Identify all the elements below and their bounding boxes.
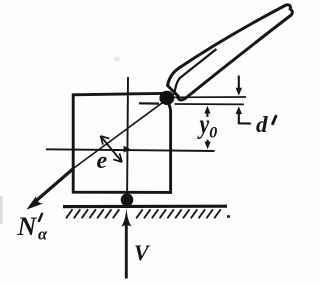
pivot dot top [159, 91, 174, 105]
support dot bottom [121, 193, 134, 206]
force N' arrow shaft (thick) [34, 168, 75, 203]
svg-text:d: d [256, 112, 268, 137]
lower reference line [139, 102, 159, 104]
blade member outline [168, 5, 293, 100]
scan smudge left edge [0, 196, 3, 224]
svg-text:V: V [134, 240, 151, 265]
blade inner streak [175, 49, 217, 95]
vertical centroid axis [127, 77, 128, 208]
svg-text:N: N [17, 212, 38, 241]
horizontal centroid axis [46, 149, 215, 151]
centroid arrowhead [124, 146, 131, 153]
force V arrow shaft [125, 222, 128, 279]
period after hatching [227, 215, 230, 218]
svg-text:α: α [38, 225, 48, 244]
svg-text:0: 0 [209, 125, 217, 142]
d' bottom arrow with leader [239, 111, 251, 124]
e dimension arrow [101, 136, 123, 162]
svg-text:e: e [97, 148, 108, 174]
ground hatching [66, 209, 221, 218]
force V arrowhead [121, 208, 131, 227]
ground line [63, 205, 227, 209]
y0 top arrow [206, 109, 208, 117]
column box [73, 93, 170, 192]
svg-text:y: y [197, 110, 209, 140]
upper reference line [173, 96, 246, 98]
scan smudge top [114, 57, 120, 62]
force N' arrowhead [26, 196, 43, 209]
y0 bottom arrow [207, 140, 209, 145]
line of action of N' (thin segment through box) [73, 99, 167, 168]
d' top arrow [238, 76, 240, 89]
